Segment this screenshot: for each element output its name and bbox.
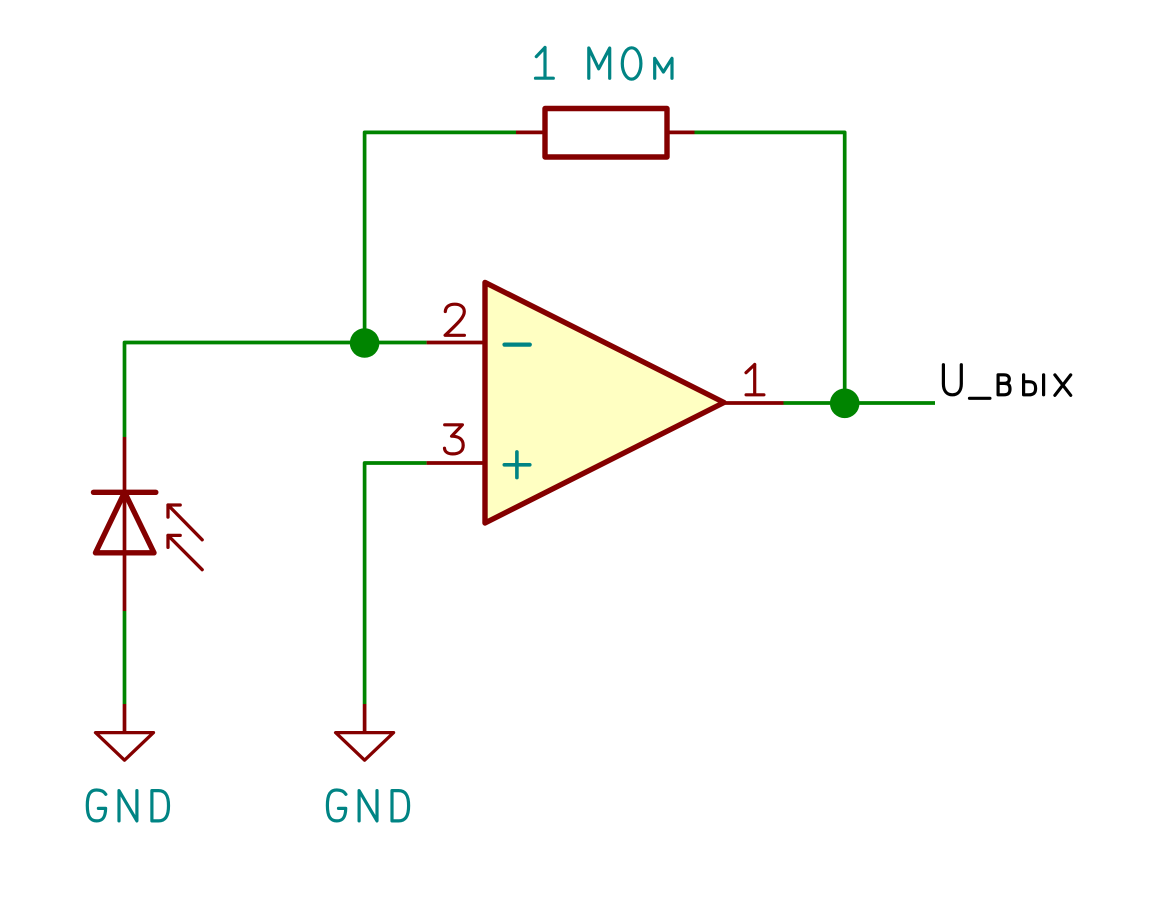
- op-amp pin 1 stub (output): [724, 401, 784, 405]
- junction node A (inverting input): [350, 328, 380, 358]
- right GND symbol: [336, 733, 394, 761]
- op-amp plus symbol (pin 3): [504, 452, 530, 478]
- wire: feedback top-right (resistor right end to corner, down to output node): [695, 132, 845, 403]
- photodiode D1 cathode bar: [94, 490, 156, 495]
- photodiode light arrow upper: [168, 505, 202, 540]
- resistor R (1 MOhm) pin left: [516, 131, 545, 135]
- left GND stub: [123, 704, 127, 733]
- photodiode light arrow lower: [168, 535, 202, 569]
- wire: inverting input run (op-amp pin 2 back to photodiode corner, down to diode): [125, 343, 427, 438]
- photodiode D1 triangle: [96, 492, 155, 553]
- left GND label: [87, 790, 168, 821]
- pin number 2: [445, 304, 464, 335]
- op-amp pin 3 stub: [427, 461, 486, 465]
- value label 1 MOm (teal stroke text): [536, 48, 673, 80]
- right GND label: [327, 790, 408, 821]
- junction node B (output): [830, 389, 860, 419]
- resistor R (1 MOhm) pin right: [667, 131, 695, 135]
- wire: photodiode anode down to left GND: [123, 611, 127, 704]
- op-amp minus symbol (pin 2): [505, 343, 530, 347]
- left GND symbol: [96, 733, 154, 761]
- resistor R body: [545, 109, 667, 158]
- net label U_vyh: [943, 365, 1070, 399]
- wire: feedback top-left (resistor left end to corner, down to inverting node): [365, 132, 516, 342]
- op-amp pin 2 stub: [427, 341, 486, 345]
- pin number 3: [445, 425, 464, 454]
- right GND stub: [363, 704, 367, 733]
- wire: output to net label U_vyh: [784, 401, 936, 405]
- pin number 1: [746, 365, 764, 395]
- op-amp U1 body: [485, 282, 724, 523]
- photodiode D1 cathode pin (top, through symbol): [123, 437, 127, 611]
- wire: op-amp pin 3 left and down to right GND: [365, 463, 427, 704]
